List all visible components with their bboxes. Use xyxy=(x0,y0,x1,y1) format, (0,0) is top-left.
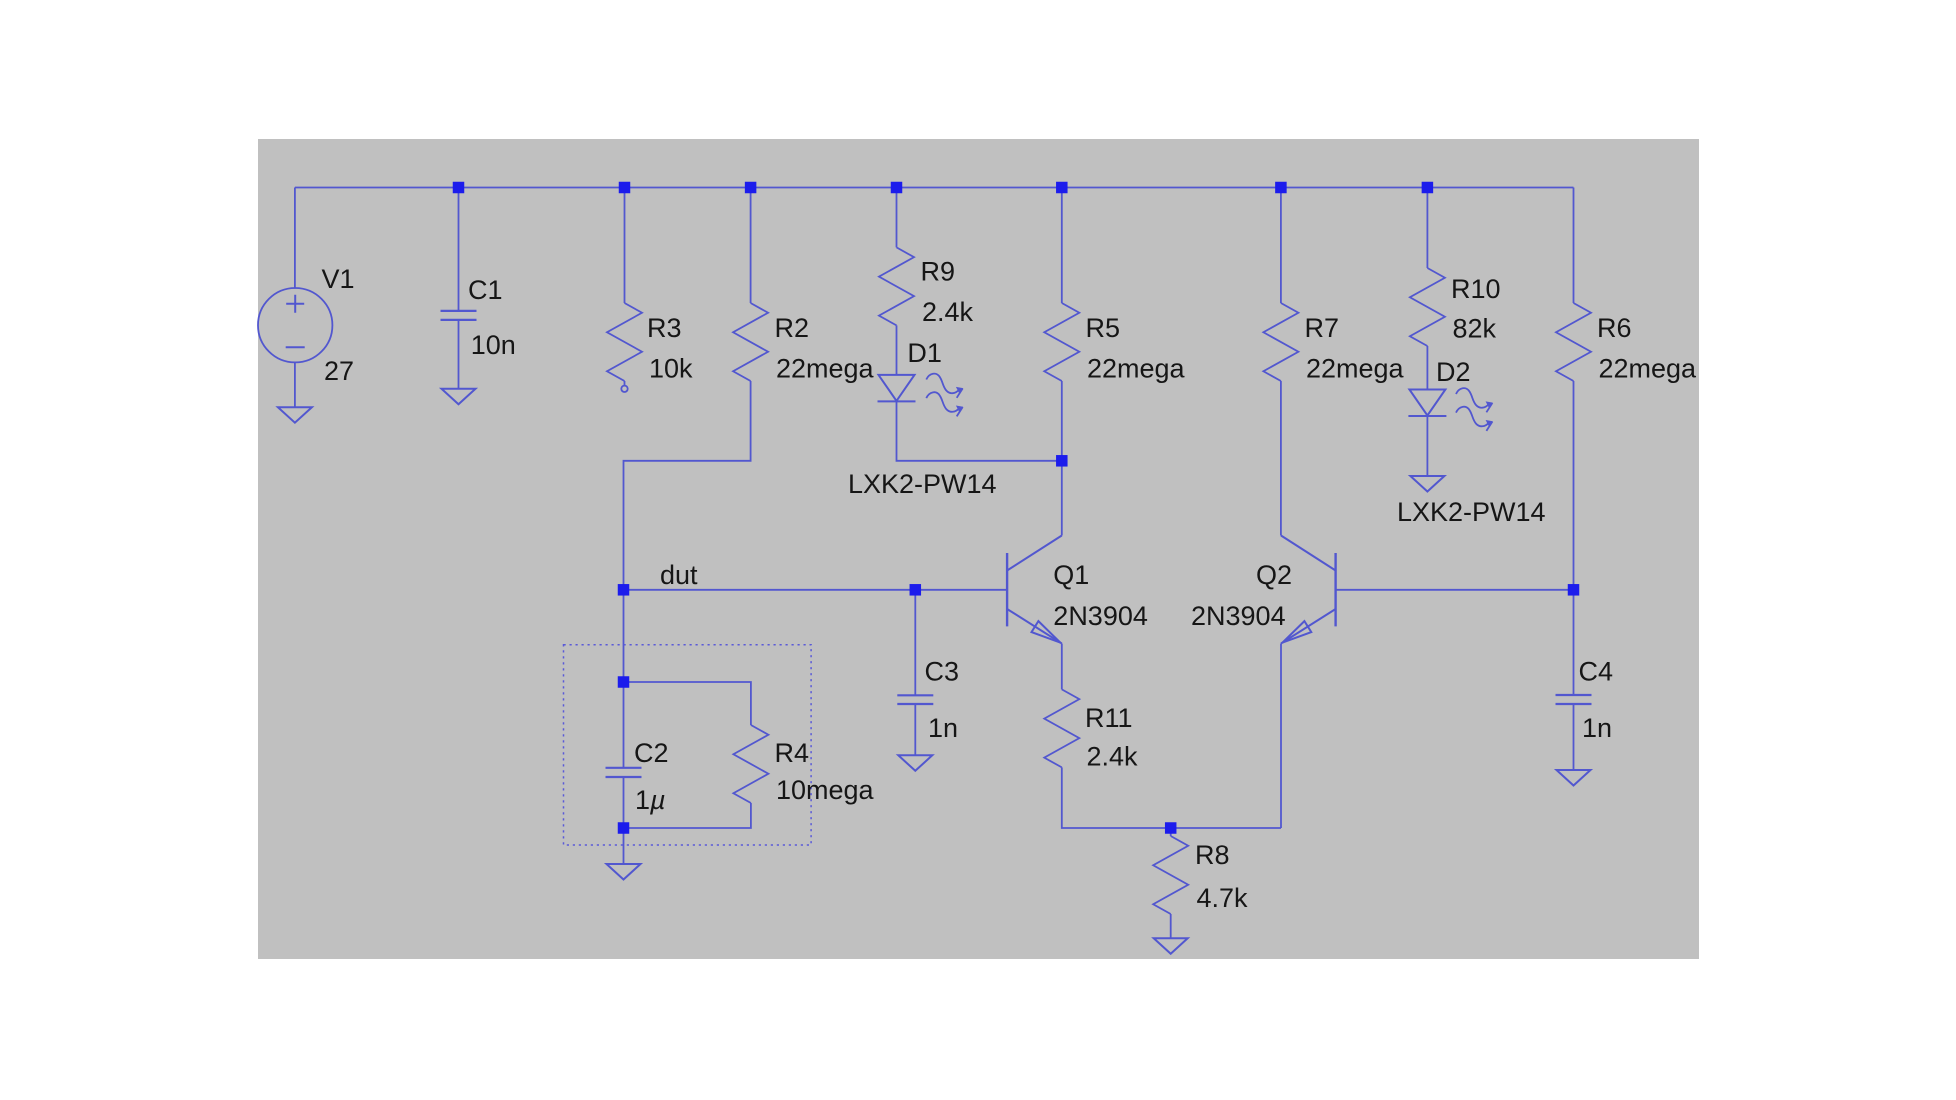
svg-text:22mega: 22mega xyxy=(1087,354,1186,384)
svg-text:4.7k: 4.7k xyxy=(1197,883,1249,913)
svg-text:LXK2-PW14: LXK2-PW14 xyxy=(1397,497,1546,527)
svg-text:V1: V1 xyxy=(322,264,355,294)
svg-text:10n: 10n xyxy=(471,330,516,360)
svg-text:R7: R7 xyxy=(1305,313,1340,343)
svg-text:R9: R9 xyxy=(921,257,956,287)
svg-text:2N3904: 2N3904 xyxy=(1053,601,1148,631)
svg-text:2.4k: 2.4k xyxy=(922,297,974,327)
svg-text:82k: 82k xyxy=(1453,314,1497,344)
svg-text:D1: D1 xyxy=(907,338,942,368)
svg-text:LXK2-PW14: LXK2-PW14 xyxy=(848,469,997,499)
svg-text:R2: R2 xyxy=(775,313,810,343)
svg-text:10mega: 10mega xyxy=(776,775,875,805)
svg-text:R4: R4 xyxy=(775,738,810,768)
svg-text:Q1: Q1 xyxy=(1053,560,1089,590)
svg-text:R3: R3 xyxy=(647,313,682,343)
svg-text:22mega: 22mega xyxy=(1306,354,1405,384)
svg-text:22mega: 22mega xyxy=(776,354,875,384)
svg-text:1n: 1n xyxy=(928,713,958,743)
svg-text:Q2: Q2 xyxy=(1256,560,1292,590)
svg-text:1n: 1n xyxy=(1582,713,1612,743)
svg-text:R10: R10 xyxy=(1451,274,1501,304)
svg-text:2N3904: 2N3904 xyxy=(1191,601,1286,631)
svg-text:C4: C4 xyxy=(1579,657,1614,687)
svg-text:dut: dut xyxy=(660,560,698,590)
svg-text:C1: C1 xyxy=(468,275,503,305)
svg-text:C3: C3 xyxy=(925,657,960,687)
svg-text:R6: R6 xyxy=(1597,313,1632,343)
svg-text:R5: R5 xyxy=(1086,313,1121,343)
svg-text:R11: R11 xyxy=(1085,703,1133,733)
svg-text:2.4k: 2.4k xyxy=(1087,742,1139,772)
svg-text:22mega: 22mega xyxy=(1599,354,1698,384)
svg-text:C2: C2 xyxy=(634,738,669,768)
svg-text:R8: R8 xyxy=(1195,840,1230,870)
svg-text:1µ: 1µ xyxy=(635,785,666,815)
svg-text:27: 27 xyxy=(324,356,354,386)
svg-text:D2: D2 xyxy=(1436,357,1471,387)
svg-text:10k: 10k xyxy=(649,354,693,384)
